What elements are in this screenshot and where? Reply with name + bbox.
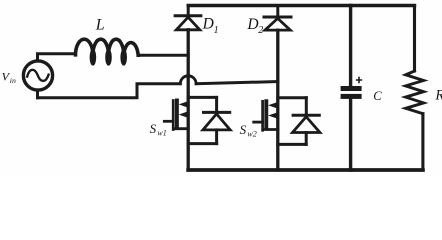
label D1 [202,16,219,36]
wire source bottom stub [36,90,39,98]
wire cell2 top node [278,96,307,99]
wire D2 branch vertical (down through cell 2 to bottom rail) [276,30,279,170]
wire cell2 bottom node [278,143,306,146]
svg-text:2: 2 [258,25,263,36]
diode D2 [264,6,291,31]
wire hop over D1 branch [180,76,196,84]
inductor L [76,39,139,65]
label C [373,89,382,103]
wire cell1 bottom node [188,142,217,145]
svg-text:1: 1 [214,25,219,36]
svg-text:D: D [202,16,214,33]
resistor R [406,71,424,170]
svg-text:S: S [240,122,247,137]
svg-text:w1: w1 [157,128,166,137]
label Sw1 [150,121,167,138]
svg-text:in: in [10,76,16,85]
label Sw2 [240,122,257,139]
capacitor C [341,6,362,171]
label R [434,88,442,104]
diode D1 [175,6,201,30]
svg-text:D: D [246,16,258,33]
wire top rail [188,4,414,7]
wire hop to D2 junction [196,82,278,84]
svg-text:S: S [150,121,157,136]
wire cell1 top node [188,96,216,99]
diode body diode of Sw1 [203,97,230,143]
transistor Sw1 (MOSFET) [164,100,188,129]
diode body diode of Sw2 [293,98,320,145]
label L [95,17,105,34]
label D2 [246,16,263,36]
label Vin [2,70,16,86]
wire source top stub to inductor [38,54,76,61]
svg-text:w2: w2 [247,129,256,138]
transistor Sw2 (MOSFET) [254,101,278,130]
wire inductor to node A (junction with D1 branch) [138,54,188,57]
svg-text:R: R [434,88,442,104]
svg-text:C: C [373,89,382,103]
wire right-side drop from top rail to resistor [413,6,416,72]
wire D1 branch vertical (node A down through cell 1 to bottom rail) [187,30,190,170]
svg-text:L: L [95,17,105,34]
wire bottom rail [188,168,423,172]
label plus polarity [357,78,362,83]
AC source Vin [23,61,52,90]
wire bottom of source, jog up [38,84,181,98]
